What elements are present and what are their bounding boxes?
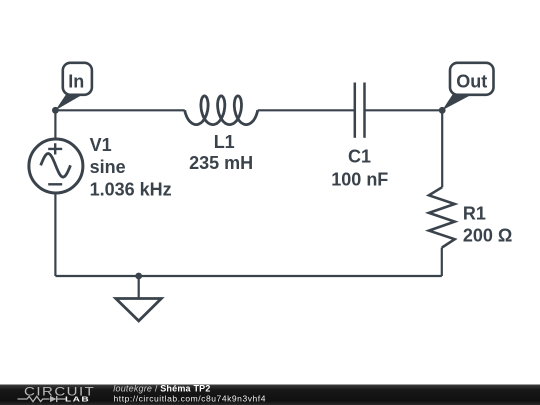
node Out junction dot [439, 107, 446, 114]
svg-text:R1: R1 [463, 203, 486, 223]
node ground junction dot [135, 273, 142, 280]
wire bottom rail [55, 275, 441, 277]
svg-text:loutekgre / Shéma TP2: loutekgre / Shéma TP2 [113, 384, 210, 394]
wire ground stub [138, 276, 140, 299]
wire right rail bottom: resistor to bottom wire [441, 248, 443, 276]
node Out flag box [450, 63, 494, 95]
voltage source minus sign [48, 183, 62, 185]
footer logo squiggle [18, 396, 67, 401]
voltage source plus sign [48, 143, 62, 154]
wire top-left: In node to inductor [55, 109, 184, 111]
svg-text:sine: sine [90, 157, 126, 177]
svg-text:L1: L1 [214, 132, 235, 152]
svg-text:http://circuitlab.com/c8u74k9n: http://circuitlab.com/c8u74k9n3vhf4 [114, 394, 267, 404]
footer logo diode [50, 396, 57, 402]
node Out flag pointer [442, 89, 470, 111]
svg-text:100 nF: 100 nF [331, 170, 388, 190]
inductor L1 [185, 96, 258, 125]
resistor R1 zigzag [429, 187, 455, 247]
voltage source V1 circle [29, 139, 83, 193]
svg-text:C1: C1 [348, 146, 371, 166]
ground symbol [116, 299, 162, 321]
svg-text:Out: Out [456, 71, 487, 91]
svg-text:V1: V1 [90, 135, 112, 155]
node In flag pointer [55, 89, 81, 111]
svg-text:235 mH: 235 mH [189, 153, 253, 173]
svg-text:In: In [68, 71, 84, 91]
svg-text:LAB: LAB [65, 395, 90, 403]
wire left rail bottom: source to bottom wire [54, 193, 56, 276]
wire inductor to capacitor [258, 109, 355, 111]
wire capacitor to Out node [365, 109, 443, 111]
svg-text:1.036 kHz: 1.036 kHz [90, 180, 172, 200]
wire left rail top: In node to source [54, 110, 56, 139]
node In junction dot [52, 107, 59, 114]
voltage source V1 sine wave [41, 154, 71, 178]
svg-text:200 Ω: 200 Ω [463, 226, 512, 246]
capacitor C1 plates [355, 83, 365, 138]
wire right rail top: Out node to resistor [441, 110, 443, 187]
node In flag box [63, 63, 92, 95]
